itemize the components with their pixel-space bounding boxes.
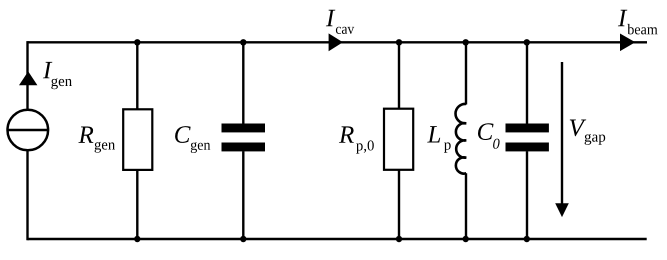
wire C0 branch upper <box>526 42 528 123</box>
label Lp <box>427 126 451 153</box>
node dot bottom Cgen <box>240 236 246 242</box>
capacitor Cgen bottom plate <box>222 143 266 152</box>
current source I1 diameter line <box>8 129 49 131</box>
arrow Vgap head <box>555 203 569 217</box>
wire Lp branch upper <box>465 42 467 104</box>
current source arrow up <box>19 71 37 85</box>
node dot top Rp0 <box>396 39 402 45</box>
label Ibeam <box>618 10 658 35</box>
label Igen <box>43 62 72 89</box>
wire Lp branch lower <box>465 173 467 239</box>
resistor Rgen <box>123 109 152 170</box>
wire Rgen branch upper <box>136 42 138 109</box>
label Icav <box>326 10 354 34</box>
wire Cgen branch lower <box>242 151 244 239</box>
node dot top Rgen <box>134 39 140 45</box>
node dot bottom Lp <box>463 236 469 242</box>
wire Rgen branch lower <box>136 170 138 239</box>
label Rgen <box>78 127 115 153</box>
wire Cgen branch upper <box>242 42 244 123</box>
capacitor C0 top plate <box>506 124 549 133</box>
capacitor Cgen top plate <box>222 124 266 133</box>
arrow Vgap line <box>561 62 563 205</box>
arrow Icav on top bus <box>329 33 343 51</box>
resistor Rp0 <box>384 109 413 170</box>
node dot top C0 <box>524 39 530 45</box>
node dot bottom Rp0 <box>396 236 402 242</box>
wire left branch lower <box>26 150 28 240</box>
wire bottom bus <box>28 238 647 240</box>
label C0 <box>478 123 500 149</box>
current source I1 circle <box>8 110 49 151</box>
label Rp0 <box>339 126 374 153</box>
wire Rp0 branch lower <box>398 170 400 239</box>
arrow Ibeam on top bus <box>620 34 635 52</box>
node dot bottom C0 <box>524 236 530 242</box>
wire Rp0 branch upper <box>398 42 400 108</box>
capacitor C0 bottom plate <box>506 143 549 152</box>
wire C0 branch lower <box>526 151 528 239</box>
wire left branch upper <box>26 41 28 110</box>
node dot top Cgen <box>240 39 246 45</box>
label Vgap <box>570 120 605 145</box>
label Cgen <box>175 126 210 153</box>
node dot bottom Rgen <box>134 236 140 242</box>
wire top bus <box>28 41 648 43</box>
node dot top Lp <box>463 39 469 45</box>
inductor Lp coil <box>456 104 467 174</box>
